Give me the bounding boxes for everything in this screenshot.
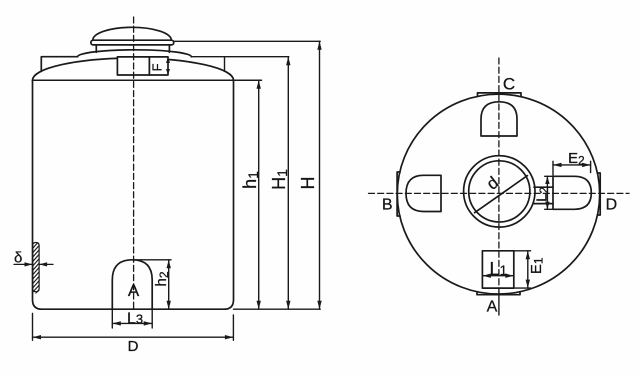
- dimension line h2: [167, 260, 171, 309]
- fitting C (top arch): [481, 102, 517, 136]
- horizontal centerline: [369, 192, 630, 194]
- svg-text:H1: H1: [269, 169, 290, 190]
- tab bottom: [477, 292, 520, 295]
- center pipe outer circle: [464, 156, 535, 227]
- svg-text:B: B: [382, 197, 393, 214]
- manway arch door: [112, 260, 152, 309]
- E2 extension lines: [553, 161, 591, 175]
- centerline (side view vertical axis): [133, 17, 135, 309]
- svg-text:A: A: [487, 298, 498, 315]
- tab B (left): [397, 172, 400, 216]
- dimension line D: [33, 335, 234, 339]
- svg-text:F: F: [150, 63, 165, 71]
- fitting box F right: [149, 57, 168, 75]
- fitting box F left: [117, 57, 149, 75]
- fitting A (bottom box): [482, 251, 513, 288]
- L2 extension lines: [545, 176, 553, 209]
- H extension line (top): [174, 40, 320, 42]
- svg-text:δ: δ: [14, 250, 22, 267]
- svg-text:H: H: [298, 177, 318, 190]
- svg-text:D: D: [128, 338, 139, 355]
- dimension line h1: [257, 80, 261, 309]
- bottom extension line: [234, 308, 321, 310]
- E1 extension lines: [514, 251, 531, 288]
- platform ledge right segment (continues as H1 extension line): [191, 57, 288, 72]
- node A leader line: [498, 288, 500, 315]
- svg-text:E1: E1: [528, 257, 546, 274]
- tab C (top): [478, 93, 522, 96]
- dimension line L1 (inside box): [482, 274, 513, 278]
- svg-text:D: D: [606, 197, 618, 214]
- dimension line E2: [553, 163, 591, 167]
- tank dome (top shoulder curve): [33, 58, 234, 80]
- delta arrows: [14, 262, 53, 266]
- dimension line L3: [112, 321, 152, 325]
- svg-text:E2: E2: [568, 150, 585, 168]
- dimension line E1: [526, 251, 530, 288]
- vertical centerline: [498, 58, 500, 288]
- dimension line L2: [545, 176, 549, 209]
- svg-text:L3: L3: [127, 310, 143, 327]
- center pipe inner circle: [469, 161, 530, 222]
- tank body outline: [33, 80, 234, 309]
- tab D (right): [597, 173, 600, 215]
- h2 extension line: [134, 259, 171, 261]
- tank shoulder seam line: [33, 79, 262, 81]
- tank circle: [397, 94, 599, 294]
- cap dome: [93, 27, 172, 40]
- F dimension arrows: [166, 57, 170, 75]
- svg-text:L1: L1: [490, 259, 508, 279]
- svg-text:A: A: [128, 281, 140, 300]
- wall thickness hatch band: [33, 241, 40, 301]
- cap flange: [91, 40, 174, 45]
- curb dome: [78, 50, 192, 57]
- svg-text:h2: h2: [153, 271, 171, 286]
- manhole neck: [96, 45, 169, 52]
- L3 extension lines: [112, 309, 152, 328]
- D extension lines: [33, 314, 234, 341]
- svg-text:C: C: [503, 75, 515, 94]
- nozzle stub: [534, 187, 553, 203]
- dimension line H1: [286, 57, 290, 310]
- platform ledge left segment: [41, 57, 77, 72]
- svg-text:L2: L2: [533, 186, 551, 201]
- fitting B (left arch): [406, 175, 441, 211]
- dimension line H: [317, 41, 321, 309]
- svg-text:h1: h1: [240, 171, 261, 189]
- pipe diameter line: [475, 176, 528, 213]
- fitting D (right arch): [553, 176, 591, 209]
